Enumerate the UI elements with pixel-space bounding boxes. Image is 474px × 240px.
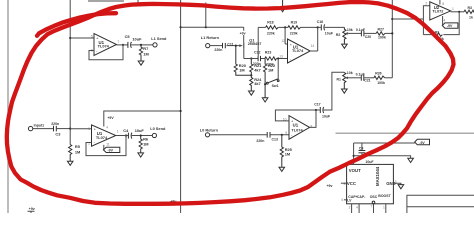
node gate / R20 tap <box>235 45 237 47</box>
svg-text:+9v: +9v <box>240 31 246 35</box>
power flag cut at bottom <box>28 211 35 213</box>
wire L1 Return to C11 <box>210 45 222 47</box>
op-amp U1C <box>283 116 313 140</box>
resistor R27 <box>364 27 392 39</box>
svg-text:100k: 100k <box>377 81 385 85</box>
resistor R23 <box>261 50 288 66</box>
resistor R6 <box>139 136 149 152</box>
svg-text:Input1: Input1 <box>34 124 45 128</box>
resistor R25 <box>280 135 292 167</box>
svg-text:4: 4 <box>106 125 108 129</box>
node output junction <box>458 11 460 13</box>
svg-text:0.1uF: 0.1uF <box>356 28 366 32</box>
wire U1A output <box>117 44 128 46</box>
svg-text:1: 1 <box>383 205 385 209</box>
resistor R26 <box>364 72 392 86</box>
+9v supply label Q1 <box>240 27 246 42</box>
wire U1B feedback <box>86 136 126 156</box>
svg-text:VCC: VCC <box>347 181 356 186</box>
ground under R5 <box>67 157 73 165</box>
svg-text:TL074: TL074 <box>96 135 108 140</box>
svg-text:R2: R2 <box>336 33 341 37</box>
wire pin4 <box>442 16 444 26</box>
svg-text:C11: C11 <box>227 42 233 46</box>
wire LV stub <box>344 199 347 201</box>
op-amp U1B <box>88 125 119 146</box>
svg-text:BOOST: BOOST <box>378 194 391 198</box>
svg-text:L0 Return: L0 Return <box>200 127 219 132</box>
wire to U1A + input <box>70 37 94 39</box>
svg-text:220n: 220n <box>253 62 261 66</box>
-9V flag U1B <box>103 147 119 152</box>
svg-text:R1: R1 <box>337 78 342 82</box>
node switch junction <box>264 83 266 85</box>
wire to U1B + input <box>70 128 91 130</box>
svg-text:R6: R6 <box>143 136 149 141</box>
svg-text:L0 Send: L0 Send <box>150 126 166 131</box>
red annotation oval <box>7 2 454 204</box>
svg-text:10uF: 10uF <box>322 114 331 118</box>
pin stubs below U3 <box>349 201 386 213</box>
wire U1D output <box>310 50 318 52</box>
wire U1C output <box>310 110 316 127</box>
capacitor C12 <box>253 50 261 66</box>
node U1B output junction <box>125 134 127 136</box>
svg-text:C4: C4 <box>123 128 129 133</box>
resistor R5 <box>69 144 81 157</box>
svg-text:10uF: 10uF <box>135 128 145 133</box>
svg-text:220n: 220n <box>214 48 222 52</box>
wire Input1 to C3 <box>33 128 53 130</box>
svg-text:TL074: TL074 <box>98 44 110 49</box>
svg-text:C9: C9 <box>359 147 364 151</box>
wire C3 to node A <box>57 128 70 130</box>
capacitor C4 <box>123 128 144 139</box>
svg-text:1: 1 <box>117 130 119 134</box>
capacitor C11 <box>214 42 233 52</box>
resistor R31 <box>434 30 444 41</box>
svg-text:C13: C13 <box>272 137 278 141</box>
capacitor C3 <box>51 122 61 136</box>
wire R18 drop <box>257 27 259 56</box>
node pin13 junction <box>277 57 279 59</box>
wire to U1D + input <box>285 43 287 45</box>
U1B pin 11 wire <box>103 145 105 150</box>
svg-text:R5: R5 <box>75 144 81 149</box>
svg-text:C20: C20 <box>365 35 371 39</box>
svg-text:-: - <box>291 132 293 137</box>
wire C5 to L1 Send <box>131 44 153 46</box>
svg-text:9: 9 <box>285 131 287 135</box>
wire GND stub <box>393 183 401 184</box>
svg-text:3: 3 <box>88 127 90 131</box>
svg-text:R23: R23 <box>265 50 271 54</box>
top gray bar (cropped label box) <box>88 0 124 2</box>
svg-text:7: 7 <box>371 204 373 208</box>
capacitor C17 <box>314 103 331 119</box>
wire ground row <box>354 156 411 159</box>
potentiometer R2 <box>336 27 361 44</box>
svg-text:2: 2 <box>349 205 351 209</box>
capacitor C9 <box>359 143 375 164</box>
net rail C (right mixer rail) <box>391 0 393 78</box>
svg-text:4: 4 <box>356 205 358 209</box>
svg-text:10uF: 10uF <box>132 36 142 41</box>
wire -9V out <box>354 142 415 144</box>
wire Q1 source row <box>244 58 258 60</box>
node rail C top tap <box>391 18 393 20</box>
capacitor C16 <box>317 20 334 36</box>
svg-text:10k: 10k <box>347 71 353 75</box>
node rail C tap <box>391 32 393 34</box>
wire U1C + input / feedback <box>275 110 316 121</box>
svg-text:R26: R26 <box>375 72 381 76</box>
svg-text:220k: 220k <box>290 32 298 36</box>
switch Sw1 <box>266 59 279 89</box>
op-amp U1D <box>279 39 314 63</box>
svg-text:6: 6 <box>342 198 344 202</box>
+9V rail junction <box>180 26 182 28</box>
svg-text:R7: R7 <box>143 46 148 51</box>
svg-text:220n: 220n <box>51 122 59 126</box>
svg-text:1M: 1M <box>239 67 244 72</box>
bottom right component box <box>407 195 474 213</box>
svg-text:C3: C3 <box>55 131 61 136</box>
svg-text:R18: R18 <box>267 21 273 25</box>
svg-text:100k: 100k <box>378 36 386 40</box>
svg-text:1M: 1M <box>143 51 148 56</box>
svg-text:Sw1: Sw1 <box>272 84 279 88</box>
top tick <box>137 0 139 3</box>
U1B power pin 4 wire <box>104 111 181 127</box>
op-amp U2 TL072 <box>425 2 454 23</box>
node VOUT junction <box>353 155 355 157</box>
wire U2 feedback <box>423 12 459 35</box>
svg-text:11: 11 <box>106 142 110 146</box>
node R6 tap <box>140 134 142 136</box>
net rail B (+9V vertical) <box>180 0 182 213</box>
op-amp U1A <box>91 34 119 56</box>
resistor R22 <box>264 59 276 85</box>
svg-text:14: 14 <box>311 44 315 48</box>
-9V flag U2 <box>442 23 458 28</box>
wire to TL072 <box>392 18 423 20</box>
section divider right <box>336 132 474 134</box>
left page border <box>7 0 9 213</box>
wire VCC stub <box>341 182 347 184</box>
svg-text:4: 4 <box>444 18 446 22</box>
resistor R18 <box>258 21 278 36</box>
wire U1B output <box>116 135 128 137</box>
wire U1A feedback <box>89 45 123 60</box>
svg-text:1M: 1M <box>285 151 290 156</box>
svg-text:C21: C21 <box>364 79 370 83</box>
wire C16 to R2 <box>325 26 345 28</box>
svg-text:-9V: -9V <box>108 149 114 153</box>
resistor R30 <box>464 6 474 20</box>
svg-text:8: 8 <box>344 182 346 186</box>
node R18/R19 junction <box>284 26 286 28</box>
svg-text:10uF: 10uF <box>325 31 334 35</box>
svg-text:1M: 1M <box>75 149 80 154</box>
svg-text:5: 5 <box>91 34 93 38</box>
connector L0 Send <box>152 133 156 137</box>
svg-text:1M: 1M <box>268 67 273 72</box>
-9V flag output <box>415 139 430 145</box>
wire pin12 drop <box>284 27 286 44</box>
node R25 tap <box>281 134 283 136</box>
wire L0 Return to C13 <box>210 134 267 136</box>
ground right of C9 <box>408 158 414 162</box>
+9V branch wire <box>181 26 244 28</box>
wire C4 to L0 Send <box>132 135 153 137</box>
red annotation tail <box>37 13 116 36</box>
svg-text:10uF: 10uF <box>365 160 374 164</box>
svg-text:-: - <box>96 48 98 53</box>
svg-text:OSC: OSC <box>370 195 378 199</box>
node +9V tie <box>180 110 182 112</box>
svg-text:TL074: TL074 <box>291 127 303 132</box>
svg-text:L1 Send: L1 Send <box>151 36 167 41</box>
capacitor C5 <box>125 34 143 48</box>
svg-text:L1 Return: L1 Return <box>201 35 220 40</box>
wire TL072 output <box>451 11 464 13</box>
svg-text:1M: 1M <box>143 142 148 147</box>
IC U3 MAX1044 <box>342 160 397 204</box>
svg-text:4k7: 4k7 <box>254 81 261 86</box>
svg-text:220n: 220n <box>256 139 264 143</box>
ground under R2 <box>342 44 348 48</box>
svg-text:R3: R3 <box>468 6 473 10</box>
svg-text:12: 12 <box>281 39 285 43</box>
svg-text:C5: C5 <box>125 34 131 39</box>
ground under R24 <box>249 91 255 95</box>
ground stub top center <box>280 0 285 12</box>
svg-text:-9V: -9V <box>447 24 453 28</box>
ground under R7 <box>138 58 144 66</box>
potentiometer R1 <box>337 71 361 89</box>
svg-text:-9V: -9V <box>419 141 425 145</box>
svg-text:2N5457: 2N5457 <box>248 41 262 46</box>
capacitor C13 <box>256 132 278 143</box>
svg-text:TL074: TL074 <box>292 48 304 53</box>
svg-text:CAP-: CAP- <box>357 195 366 199</box>
wire U1D feedback vertical <box>317 27 319 51</box>
capacitor C21 <box>356 73 371 83</box>
connector L1 Send <box>153 43 157 47</box>
svg-text:1: 1 <box>452 7 454 11</box>
svg-text:2: 2 <box>425 2 427 6</box>
svg-text:LV: LV <box>347 199 352 203</box>
svg-text:MAX1044: MAX1044 <box>375 166 380 186</box>
resistor R20 <box>234 46 251 76</box>
node C16 junction <box>317 26 319 28</box>
svg-text:4k7: 4k7 <box>254 67 261 72</box>
svg-text:C12: C12 <box>254 50 260 54</box>
wire top stub <box>205 3 207 28</box>
wire VOUT up <box>353 143 355 164</box>
svg-text:C17: C17 <box>314 103 320 107</box>
svg-text:+9v: +9v <box>327 184 333 188</box>
resistor R24 <box>250 75 262 91</box>
svg-text:8: 8 <box>442 2 444 6</box>
svg-text:TL072: TL072 <box>432 9 444 14</box>
wire between R18 R19 <box>278 26 288 28</box>
svg-text:7: 7 <box>117 40 119 44</box>
svg-text:C16: C16 <box>317 20 323 24</box>
svg-text:10k: 10k <box>347 28 353 32</box>
svg-text:1k: 1k <box>469 16 473 20</box>
wire pin8 stub <box>439 0 441 5</box>
node top tie <box>205 26 207 28</box>
node U1A output junction <box>122 44 124 46</box>
svg-text:-: - <box>94 140 96 145</box>
node A lower junction <box>69 128 71 130</box>
svg-text:220k: 220k <box>267 32 275 36</box>
svg-text:R19: R19 <box>291 21 297 25</box>
wire TL072 input side <box>423 6 429 35</box>
resistor R21 <box>250 59 262 76</box>
node R21/R24 junction <box>250 74 252 76</box>
ground under R1 <box>342 89 348 93</box>
wire C13 to U1C <box>270 134 289 136</box>
ground at GND pin <box>398 185 404 189</box>
node A junction (U1A input) <box>69 37 71 39</box>
svg-text:+9v: +9v <box>29 207 35 211</box>
resistor R19 <box>288 21 318 36</box>
connector L0 Return <box>205 133 209 137</box>
ground under R25 <box>279 167 285 171</box>
input connector Input1 <box>28 126 32 130</box>
svg-text:13: 13 <box>279 54 283 58</box>
resistor R7 <box>139 45 148 58</box>
node source junction <box>250 57 252 59</box>
capacitor C20 <box>356 28 371 39</box>
ground under R22 <box>262 84 268 102</box>
svg-text:R27: R27 <box>378 27 384 31</box>
node R7 tap <box>140 44 142 46</box>
transistor Q1 <box>227 38 262 59</box>
wire C17 up to R1 <box>324 72 345 110</box>
ground under R6 <box>138 152 144 158</box>
node C17 junction <box>315 109 317 111</box>
svg-text:+9V: +9V <box>107 116 114 120</box>
connector L1 Return <box>206 44 210 48</box>
svg-text:VOUT: VOUT <box>349 168 361 173</box>
net rail A (input node) <box>69 0 71 145</box>
svg-text:0.1uF: 0.1uF <box>356 73 366 77</box>
